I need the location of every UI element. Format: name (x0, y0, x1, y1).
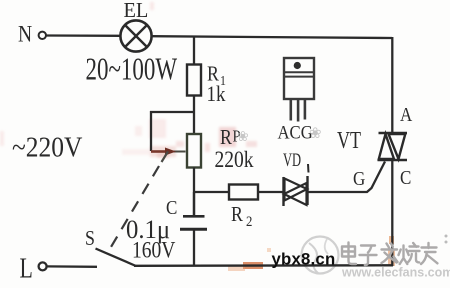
svg-text:ACG: ACG (277, 122, 312, 143)
watermark www.elecfans.com (341, 266, 450, 280)
watermark flower after RP (237, 128, 249, 144)
label N (18, 21, 32, 47)
wire lamp to top-right corner (152, 36, 392, 38)
svg-text:L: L (19, 254, 32, 284)
label 0.1u (126, 215, 170, 244)
wire R1 to RP (193, 96, 195, 135)
char fa (382, 244, 398, 264)
watermark flower after ACG (309, 125, 322, 142)
wire junction lamp/R1 down (193, 37, 195, 65)
potentiometer RP mechanical stub (162, 152, 169, 163)
wire R2 to diac VD (258, 191, 283, 193)
potentiometer RP wiper arrow (151, 148, 186, 156)
svg-text:VT: VT (337, 127, 361, 154)
svg-text:1k: 1k (207, 83, 227, 107)
triac VT (378, 133, 408, 160)
label 220k (215, 147, 254, 173)
watermark grey dots right edge (445, 235, 448, 244)
label S (85, 228, 95, 251)
svg-text:2: 2 (246, 214, 252, 230)
svg-text:ybx8.cn: ybx8.cn (272, 250, 336, 269)
leader tick below VD (307, 164, 310, 173)
label ACG (277, 122, 312, 143)
svg-text:❀: ❀ (237, 128, 249, 144)
label R2 (231, 204, 252, 231)
label VD (283, 151, 301, 171)
wire wiper branch horizontal top (150, 111, 194, 113)
label VT (337, 127, 361, 154)
wire L to switch (47, 265, 97, 268)
wire junction to R2 (194, 191, 229, 193)
svg-text:R: R (231, 204, 243, 227)
bottom wire (134, 264, 393, 267)
label RP (220, 127, 241, 150)
label 1k (207, 83, 227, 107)
svg-text:160V: 160V (132, 237, 176, 263)
lamp EL (120, 20, 151, 51)
wire right vertical down to triac A (391, 37, 393, 133)
wire RP to C and R2 junction (193, 168, 195, 216)
wire triac cathode down to bottom (391, 161, 393, 267)
watermark pink smudges around RP area (0, 2, 257, 158)
char shao (399, 243, 420, 264)
label 160V (132, 237, 176, 263)
svg-text:❀: ❀ (309, 125, 322, 142)
svg-text:S: S (85, 228, 95, 251)
resistor R2 (229, 185, 258, 200)
node N terminal (39, 32, 46, 39)
label L (19, 254, 32, 284)
node L terminal (39, 262, 47, 270)
capacitor C (180, 216, 207, 229)
svg-text:C: C (400, 167, 411, 190)
label R1 (207, 63, 226, 88)
svg-text:G: G (353, 168, 365, 191)
char you (421, 243, 437, 264)
wire N to lamp (47, 34, 121, 37)
wire VD to gate (308, 162, 386, 193)
label G (353, 168, 365, 191)
watermark ybx8.cn (272, 250, 336, 269)
wire cap to bottom wire (193, 231, 195, 267)
label C triac (400, 167, 411, 190)
char zi (360, 246, 377, 266)
svg-text:N: N (18, 21, 32, 47)
dashed mechanical link S to RP (111, 166, 159, 247)
label C cap (166, 197, 177, 220)
svg-text:220k: 220k (215, 147, 254, 173)
diac VD (284, 176, 308, 206)
switch S blade (96, 249, 137, 267)
char dian (342, 243, 356, 265)
svg-text:www.elecfans.com: www.elecfans.com (341, 266, 450, 280)
svg-text:EL: EL (124, 0, 149, 22)
svg-text:~220V: ~220V (12, 131, 83, 163)
label ~220V (12, 131, 83, 163)
resistor R1 (187, 65, 201, 96)
label A (400, 104, 413, 127)
label EL (124, 0, 149, 22)
watermark chinese characters dian zi fa shao you (drawn strokes) (342, 243, 437, 266)
package ACG (TO-220 drawing) (284, 58, 314, 122)
watermark elecfans grey logo circle (302, 237, 339, 274)
svg-text:20~100W: 20~100W (86, 51, 178, 86)
potentiometer RP body (187, 134, 201, 168)
wire wiper branch vertical left (150, 111, 152, 151)
label 20~100W (86, 51, 178, 86)
watermark orange smudge on bottom wire (228, 236, 395, 271)
svg-text:VD: VD (283, 151, 301, 171)
svg-text:A: A (400, 104, 413, 127)
wire C top (junction to cap) (193, 192, 195, 216)
